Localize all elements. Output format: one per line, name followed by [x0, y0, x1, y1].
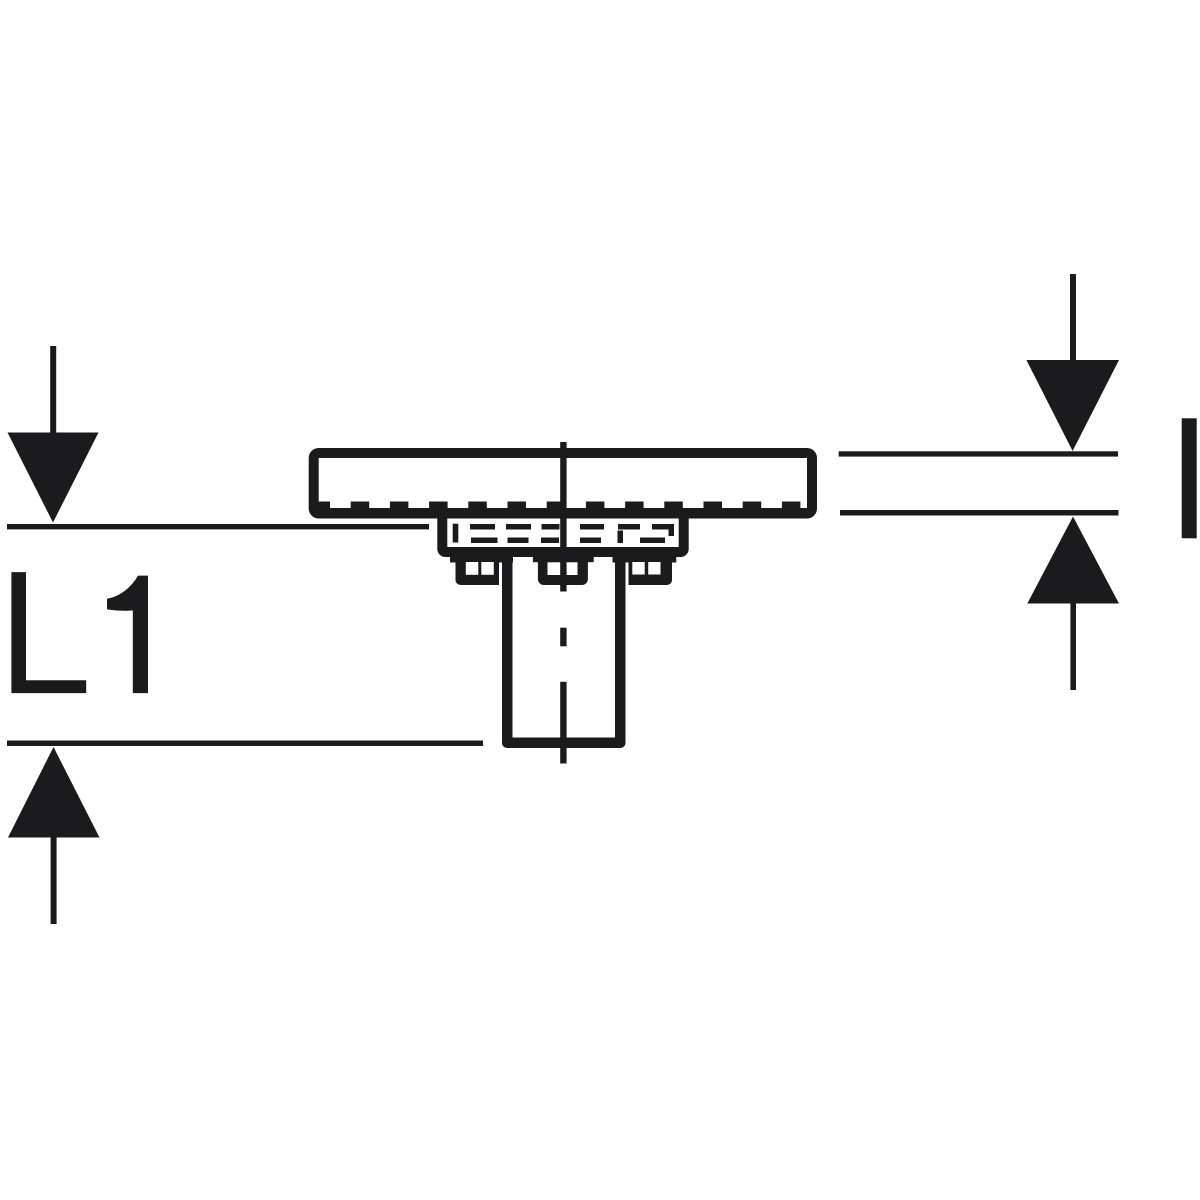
centerline short dash — [560, 628, 566, 647]
right dimension line top — [839, 451, 1118, 456]
left dimension down-arrow head — [8, 433, 99, 523]
right foot body — [629, 557, 673, 585]
centerline lower solid segment — [560, 682, 566, 764]
left foot shoulder — [450, 557, 513, 563]
right dimension down-arrow head — [1026, 360, 1119, 451]
reference thickness bar — [1182, 418, 1197, 538]
left dimension down-arrow stem — [50, 346, 56, 436]
adhesive collar box — [437, 508, 688, 557]
collar hidden-edge dashes row 2 — [471, 531, 665, 544]
right dimension down-arrow stem — [1070, 274, 1076, 362]
right dimension up-arrow head — [1027, 517, 1119, 604]
label L1 (drawn as paths, letter L) — [11, 572, 86, 693]
label L1 (digit 1) — [107, 576, 148, 694]
centerline upper solid segment — [560, 442, 566, 592]
right foot holes — [632, 562, 644, 575]
left foot holes — [466, 562, 479, 575]
dimension line L1 bottom — [7, 741, 483, 747]
left dimension up-arrow stem — [51, 837, 57, 924]
left dimension up-arrow head — [8, 747, 100, 838]
center foot shoulder — [533, 557, 594, 562]
collar hidden-edge dashes row 1 — [453, 524, 674, 543]
right dimension up-arrow stem — [1070, 603, 1076, 690]
flange outline — [309, 448, 817, 519]
left foot body — [456, 557, 500, 585]
center foot holes — [548, 562, 562, 575]
center foot body — [538, 557, 588, 585]
right foot shoulder — [613, 557, 677, 563]
dimension line L1 top — [7, 524, 429, 529]
right dimension line bottom — [840, 510, 1119, 516]
flange serration teeth — [312, 502, 801, 509]
outlet pipe walls and bottom — [502, 547, 626, 748]
